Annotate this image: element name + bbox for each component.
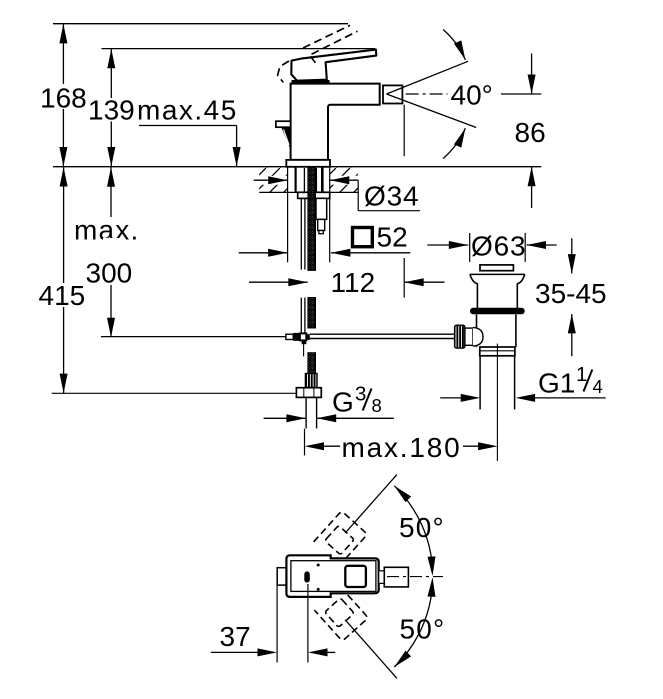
svg-text:35-45: 35-45 xyxy=(535,278,607,309)
dia34 arrows at deck xyxy=(254,176,359,184)
svg-text:Ø63: Ø63 xyxy=(471,231,526,262)
mounting nut xyxy=(298,192,330,198)
lever handle (closed) xyxy=(291,50,376,81)
square symbol 52 xyxy=(353,228,373,247)
dimension max300 line xyxy=(107,167,115,337)
svg-text:139: 139 xyxy=(88,95,135,126)
supply tube xyxy=(305,397,307,428)
spout axis dash-dot xyxy=(406,93,448,95)
lever base heavy line xyxy=(292,80,330,83)
dimension 415 line xyxy=(60,167,68,393)
dimension 112 line xyxy=(249,278,445,286)
shank walls in hole xyxy=(296,167,323,192)
drain centerline xyxy=(496,344,498,461)
o-ring seal xyxy=(470,308,525,315)
top view aerator box xyxy=(384,567,408,587)
ext line rod level (max300) xyxy=(101,336,286,338)
svg-text:50°: 50° xyxy=(400,613,446,644)
40 deg arc lower xyxy=(443,127,469,159)
svg-text:1: 1 xyxy=(576,363,587,386)
svg-text:Ø34: Ø34 xyxy=(364,181,419,212)
collar xyxy=(480,347,515,356)
svg-text:86: 86 xyxy=(515,117,546,148)
top view centerline dash-dot xyxy=(387,576,443,578)
dashed lever end rotated down xyxy=(314,587,368,641)
dimension 168 line xyxy=(59,24,67,167)
svg-text:168: 168 xyxy=(40,83,87,114)
dimension 37 xyxy=(211,584,335,663)
svg-text:max.180: max.180 xyxy=(342,432,462,463)
G3/8 nut xyxy=(296,388,321,398)
hose end ribbed connector xyxy=(305,374,317,388)
label 139 xyxy=(88,95,138,126)
dimension 139 line xyxy=(107,49,115,167)
spray cone upper line xyxy=(387,61,469,94)
svg-text:415: 415 xyxy=(39,280,86,311)
pop-up rod below nut xyxy=(301,198,305,356)
svg-text:50°: 50° xyxy=(399,512,445,543)
dimension G3/8 line xyxy=(264,414,394,422)
label G3/8 xyxy=(332,383,382,418)
pop-up rod knob tab xyxy=(276,121,291,127)
ext line tube (max180) xyxy=(304,429,306,456)
svg-text:8: 8 xyxy=(372,395,382,416)
hole edge / 52 ext line left xyxy=(287,167,289,262)
knob bulge xyxy=(473,327,483,346)
dimension 86 xyxy=(528,53,536,208)
top view pivot blob xyxy=(304,571,310,582)
dia34 leader xyxy=(357,180,359,211)
knurled knob xyxy=(455,325,465,348)
knob neck xyxy=(465,328,473,345)
top view back box xyxy=(277,568,286,585)
svg-text:300: 300 xyxy=(86,258,133,289)
deck bottom line xyxy=(259,191,358,193)
svg-text:G: G xyxy=(332,387,354,418)
dimension dia63 xyxy=(427,233,556,262)
top view lever outline (stepped) xyxy=(286,555,378,597)
label 415 xyxy=(37,280,87,311)
deck hatching right xyxy=(330,168,358,192)
40 deg arc upper xyxy=(443,30,469,62)
deck top line xyxy=(53,166,541,168)
dimension max180 line xyxy=(305,442,498,450)
ref line lever tip (139 datum) xyxy=(102,48,376,50)
svg-text:3: 3 xyxy=(355,383,366,406)
svg-text:4: 4 xyxy=(593,376,603,397)
svg-text:37: 37 xyxy=(220,621,251,652)
svg-text:112: 112 xyxy=(331,267,376,298)
label G1 1/4 xyxy=(538,363,603,399)
side connector stack xyxy=(316,198,327,219)
dashed cartridge square rotated up xyxy=(325,525,355,554)
leader line upper 50 xyxy=(345,475,397,533)
top view spout neck xyxy=(379,571,385,584)
max.45 leader xyxy=(139,126,241,167)
label max. 300 xyxy=(74,215,140,289)
dashed lever end rotated up xyxy=(314,511,368,565)
pop-up waste flange xyxy=(470,273,525,275)
top view inner body edge xyxy=(291,561,376,592)
svg-text:G1: G1 xyxy=(538,368,575,399)
label 168 xyxy=(40,83,88,114)
waste body xyxy=(476,315,478,348)
hole edge / 52 ext line right xyxy=(329,167,331,262)
faucet body (side view) xyxy=(291,84,380,160)
aerator box xyxy=(383,85,402,103)
braided hose segment 1 xyxy=(308,167,315,270)
dimension 35-45 xyxy=(568,238,576,356)
top view screw dots xyxy=(317,564,320,567)
spray cone lower line xyxy=(387,94,477,128)
dashed cartridge square rotated down xyxy=(325,598,355,627)
pop-up rod diagonal xyxy=(281,127,290,148)
base plate xyxy=(286,160,330,167)
dimension G1 1/4 xyxy=(440,394,606,402)
pop-up waste cap xyxy=(480,265,513,271)
pop-up linkage rod xyxy=(310,333,455,335)
rod coupling xyxy=(286,334,293,339)
leader line lower 50 xyxy=(345,620,397,679)
tailpipe xyxy=(479,356,481,410)
ref line top (168 datum) xyxy=(53,23,348,25)
dashed lever (open position) xyxy=(278,25,358,82)
arc 50 lower xyxy=(392,577,437,670)
svg-text:max.45: max.45 xyxy=(137,95,238,126)
arc 50 upper xyxy=(392,483,437,576)
braided hose segment 2 xyxy=(308,298,315,328)
braided hose segment 3 xyxy=(308,353,315,374)
svg-text:40°: 40° xyxy=(451,80,493,111)
top view cartridge square xyxy=(345,566,366,587)
ext line spout outlet (112) xyxy=(403,105,405,156)
svg-text:52: 52 xyxy=(377,222,408,253)
ext line hose end (415) xyxy=(52,392,297,394)
deck hatching left xyxy=(259,168,287,192)
dimension 52 line xyxy=(239,249,411,257)
